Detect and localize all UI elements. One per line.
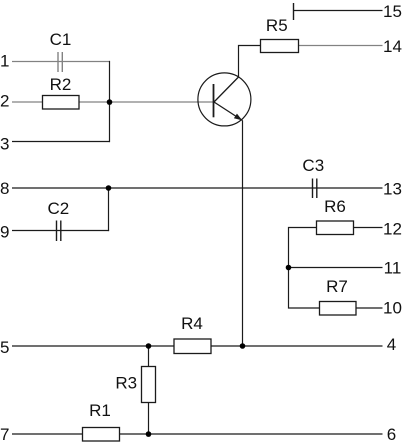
node junction pins1-2-3 [107, 99, 113, 105]
resistor R1 [83, 428, 120, 442]
svg-text:9: 9 [0, 222, 9, 241]
transistor Q1 [198, 73, 251, 126]
capacitor C3 [313, 179, 317, 199]
resistor R7 [320, 302, 357, 316]
svg-text:10: 10 [383, 298, 402, 317]
svg-text:R3: R3 [115, 374, 137, 393]
svg-text:15: 15 [383, 2, 402, 21]
terminal bar pin15 [293, 3, 295, 20]
svg-text:6: 6 [387, 425, 396, 444]
svg-text:13: 13 [383, 179, 402, 198]
wire pin8 to pin13 [12, 187, 383, 189]
wire R6 to pin12 [354, 227, 383, 229]
wire pin5 to pin4 [12, 345, 383, 347]
wire R2 to transistor base (gray) [79, 101, 213, 103]
wire R3 vertical [148, 345, 150, 434]
wire pin15 [294, 10, 383, 12]
wire R6 left / vertical / R7 left [289, 228, 321, 309]
wire emitter down to R4 node [242, 121, 244, 347]
node junction pin8 net [106, 185, 112, 191]
svg-text:3: 3 [0, 134, 9, 153]
node junction R3 bottom [146, 431, 152, 437]
svg-text:2: 2 [0, 92, 9, 111]
svg-text:C2: C2 [48, 199, 70, 218]
resistor R5 [261, 40, 299, 53]
svg-text:11: 11 [384, 259, 402, 278]
resistor R3 [142, 367, 156, 403]
resistor R2 [43, 96, 80, 110]
wire vertical node A [109, 61, 111, 142]
resistor R4 [174, 339, 211, 354]
wire pin2 to R2 (gray) [12, 101, 42, 103]
wire pin7 to pin6 [12, 433, 383, 435]
wire R5 to pin 14 (gray) [299, 45, 383, 47]
wire pin11 [289, 267, 383, 269]
svg-text:R1: R1 [89, 401, 111, 420]
svg-text:R7: R7 [326, 277, 348, 296]
svg-text:7: 7 [0, 425, 9, 444]
svg-text:C1: C1 [50, 30, 72, 49]
svg-text:5: 5 [0, 338, 9, 357]
wire pin3 [12, 141, 110, 143]
resistor R6 [317, 221, 354, 235]
svg-text:R2: R2 [50, 75, 72, 94]
svg-text:R5: R5 [266, 16, 288, 35]
svg-text:C3: C3 [302, 156, 324, 175]
svg-text:1: 1 [0, 52, 9, 71]
svg-text:12: 12 [383, 219, 402, 238]
wire R7 to pin10 [356, 307, 383, 309]
wire R5 left to collector [239, 46, 262, 78]
capacitor C2 [57, 221, 61, 242]
svg-text:R6: R6 [324, 197, 346, 216]
wire pin9 to C2 [12, 230, 109, 232]
node junction R3 top [146, 343, 152, 349]
wire pin1 to node A (gray) [12, 61, 110, 63]
svg-text:8: 8 [0, 179, 9, 198]
svg-text:14: 14 [383, 37, 402, 56]
node junction emitter-R4 [240, 343, 246, 349]
wire vertical pin8 net to C2 [108, 187, 110, 231]
svg-text:R4: R4 [181, 314, 203, 333]
svg-text:4: 4 [387, 335, 396, 354]
capacitor C1 [58, 52, 62, 72]
node junction pin11 [286, 265, 292, 271]
